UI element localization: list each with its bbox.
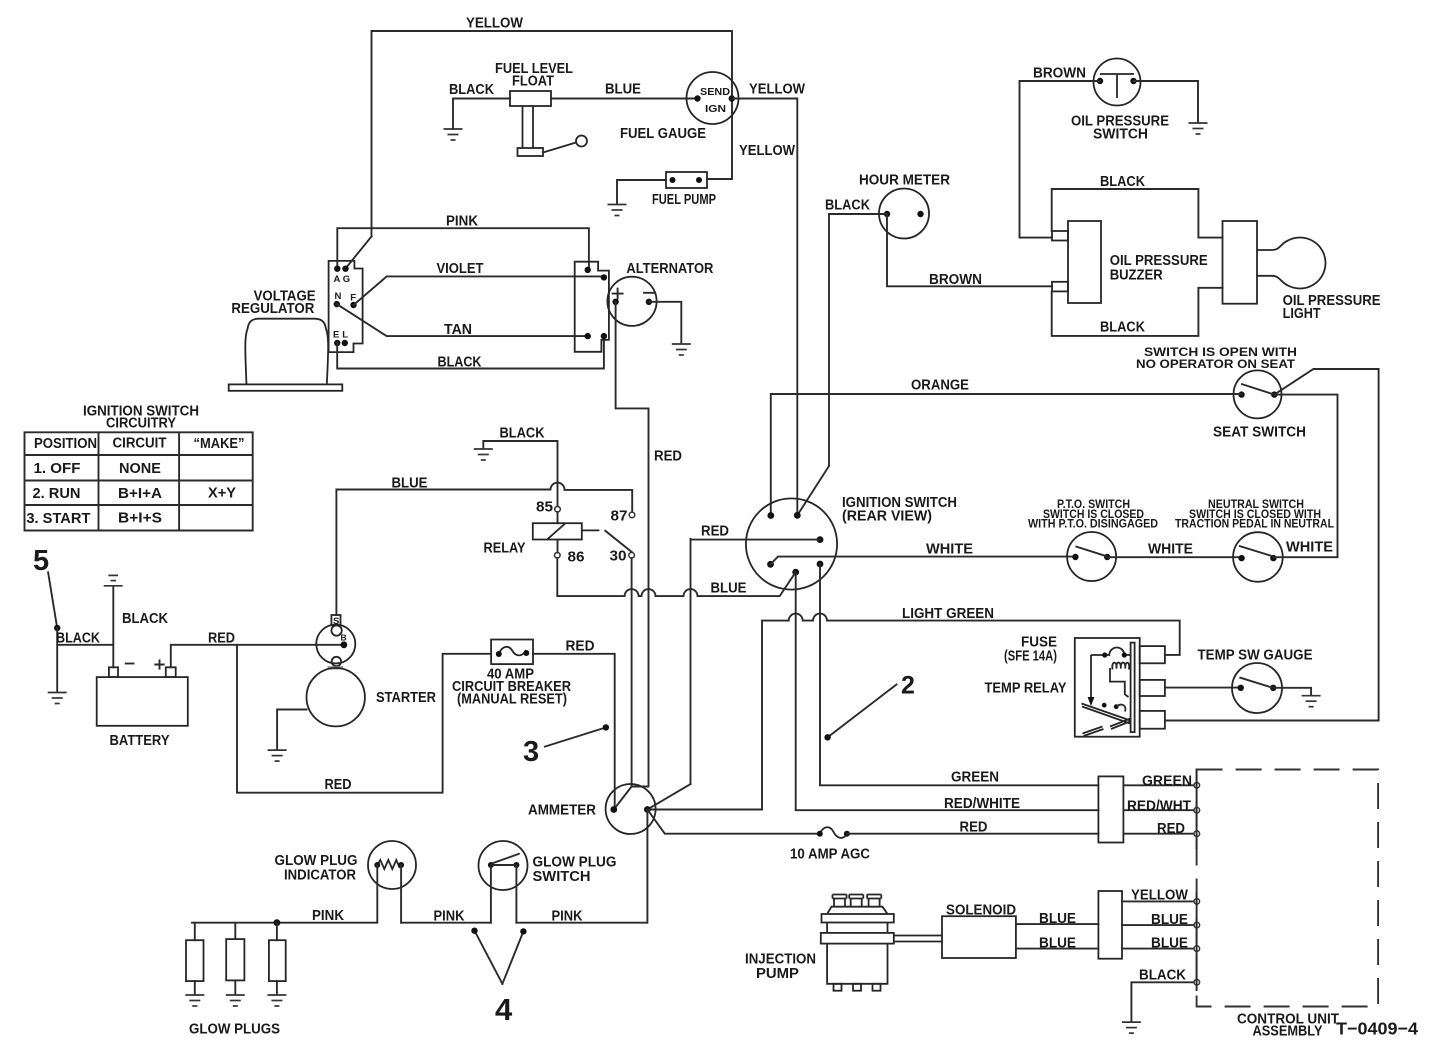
svg-text:PINK: PINK — [552, 908, 583, 924]
battery box — [97, 677, 188, 726]
relay terminal 86 circle — [555, 553, 561, 559]
wire blue 86 to ignition bottom-center — [557, 558, 795, 596]
wire blue right lower — [1122, 948, 1194, 950]
alternator circle — [607, 277, 656, 326]
wire blue float to gauge — [551, 98, 698, 100]
svg-text:LIGHT: LIGHT — [1283, 306, 1321, 322]
callout 5 leader line — [48, 572, 57, 628]
voltage regulator can body — [245, 319, 328, 385]
voltage regulator flange — [229, 384, 343, 390]
circuit breaker element — [499, 647, 527, 656]
callout 4 right dot — [520, 928, 526, 934]
svg-text:RED: RED — [960, 820, 988, 836]
temp gauge blade — [1240, 678, 1271, 688]
temp gauge right dot — [1270, 685, 1276, 691]
svg-text:YELLOW: YELLOW — [1131, 887, 1188, 903]
wire seat switch right dot to white line — [1274, 395, 1337, 558]
voltage regulator pin L dot — [342, 340, 348, 346]
float bottom slider — [518, 148, 544, 156]
temp relay bimetal strip upper — [1082, 704, 1131, 724]
glow plug switch contact line — [493, 864, 514, 866]
injection pump bolt 2 — [849, 895, 863, 907]
glow plug 3 body — [269, 940, 286, 981]
svg-text:HOUR METER: HOUR METER — [859, 173, 950, 189]
starter solenoid top small circle — [331, 625, 341, 635]
glow plug 2 lead — [234, 923, 236, 995]
injection pump dome — [827, 907, 887, 914]
wire oil switch to ground — [1134, 81, 1199, 123]
svg-text:RED: RED — [325, 777, 352, 793]
oil pressure switch left dot — [1097, 78, 1103, 84]
temp relay contact bar — [1131, 643, 1135, 733]
injection pump foot 2 — [853, 984, 861, 991]
svg-text:WHITE: WHITE — [1148, 542, 1193, 558]
svg-text:SEAT SWITCH: SEAT SWITCH — [1213, 425, 1306, 441]
svg-text:GLOW PLUGS: GLOW PLUGS — [189, 1022, 280, 1038]
glow plug 2 body — [226, 939, 244, 980]
svg-text:INDICATOR: INDICATOR — [284, 868, 356, 884]
fuse right dot — [844, 831, 850, 837]
svg-text:BLUE: BLUE — [711, 581, 747, 597]
wire red battery to starter B — [171, 645, 344, 668]
svg-text:BROWN: BROWN — [929, 272, 982, 288]
svg-text:(SFE 14A): (SFE 14A) — [1004, 649, 1057, 665]
svg-text:RED/WHT: RED/WHT — [1127, 798, 1191, 814]
alternator connector top pin dot — [585, 267, 591, 273]
oil pressure light bulb — [1257, 238, 1326, 289]
neutral switch circle — [1233, 532, 1283, 582]
wire red fuse to connector — [847, 833, 1099, 835]
ground fuel pump — [608, 205, 627, 216]
temp relay bottom-left strip — [1083, 727, 1104, 737]
wire red ammeter to fuse — [647, 810, 819, 834]
relay coil box — [533, 523, 582, 539]
temp relay small curl — [1116, 705, 1125, 712]
wire yellow gauge to ignition switch — [732, 99, 798, 516]
harness connector lower — [1098, 891, 1122, 959]
ammeter circle — [606, 784, 656, 834]
ground starter — [268, 750, 287, 761]
svg-text:BLACK: BLACK — [1100, 320, 1145, 336]
injection pump upper body — [827, 923, 887, 933]
wire starter motor to ground — [277, 710, 306, 750]
callout 4 left dot — [471, 928, 477, 934]
wire light green ignition area to temp relay — [647, 614, 1179, 810]
glow plug switch lead wires — [491, 865, 517, 923]
callout 2 leader line — [828, 685, 897, 738]
svg-text:N: N — [335, 291, 342, 302]
svg-text:CIRCUIT: CIRCUIT — [113, 436, 167, 452]
svg-text:IGN: IGN — [705, 103, 726, 115]
ground glow plug 3 — [267, 995, 286, 1006]
temp relay box — [1075, 638, 1140, 737]
wire green ignition bottom-right to control unit — [820, 564, 1098, 785]
wire alternator minus to ground — [649, 302, 681, 344]
alternator connector — [575, 262, 609, 352]
hour meter left dot — [884, 211, 890, 217]
svg-text:10 AMP AGC: 10 AMP AGC — [790, 847, 870, 863]
svg-text:X+Y: X+Y — [208, 485, 236, 501]
wire red connector to control unit — [1123, 833, 1193, 835]
svg-text:GREEN: GREEN — [1142, 773, 1192, 789]
svg-text:RED: RED — [701, 524, 729, 540]
voltage regulator connector — [329, 261, 363, 352]
svg-text:(MANUAL RESET): (MANUAL RESET) — [457, 692, 567, 708]
temp relay arrowhead — [1088, 697, 1095, 706]
wire white ignition to pto switch — [771, 557, 1076, 565]
oil pressure switch T symbol — [1100, 74, 1134, 98]
wire black buzzer top loop — [1052, 189, 1223, 238]
svg-text:BLUE: BLUE — [1151, 912, 1188, 928]
injection pump band 1 — [822, 914, 894, 923]
neutral switch blade — [1240, 546, 1271, 556]
svg-text:3. START: 3. START — [26, 511, 90, 527]
seat switch right dot — [1271, 391, 1277, 397]
relay armature link dash — [582, 529, 600, 531]
svg-text:2. RUN: 2. RUN — [33, 486, 81, 502]
svg-text:5: 5 — [33, 545, 49, 577]
svg-text:“MAKE”: “MAKE” — [194, 436, 245, 452]
ignition pin top-left dot — [767, 512, 774, 519]
svg-text:WHITE: WHITE — [926, 542, 973, 558]
svg-text:TRACTION PEDAL IN NEUTRAL: TRACTION PEDAL IN NEUTRAL — [1175, 517, 1334, 531]
seat switch circle — [1234, 370, 1282, 418]
callout 3 leader line — [545, 727, 606, 746]
svg-text:ALTERNATOR: ALTERNATOR — [626, 261, 713, 277]
relay coil diagonal — [547, 524, 565, 540]
temp relay bottom stub — [1140, 711, 1165, 729]
svg-text:B+I+S: B+I+S — [118, 511, 162, 527]
svg-text:B: B — [341, 633, 347, 643]
control unit pin green — [1194, 783, 1200, 789]
svg-text:BATTERY: BATTERY — [110, 733, 170, 749]
svg-text:NO OPERATOR ON SEAT: NO OPERATOR ON SEAT — [1136, 357, 1296, 371]
wire black relay coil ground — [483, 441, 557, 507]
svg-text:ORANGE: ORANGE — [911, 378, 969, 394]
wire green connector to control unit — [1123, 784, 1193, 786]
battery positive post — [166, 667, 176, 677]
glow plug indicator circle — [368, 841, 416, 889]
fuel gauge circle — [687, 72, 739, 124]
wire yellow connector to control unit — [1122, 900, 1194, 902]
alternator plus terminal dot — [612, 299, 618, 305]
svg-text:RED: RED — [566, 639, 595, 655]
control unit pin black — [1194, 980, 1200, 986]
control unit left edge solid segments — [1196, 770, 1198, 991]
temp sw gauge circle — [1232, 663, 1282, 713]
svg-text:YELLOW: YELLOW — [466, 16, 523, 32]
glow plug switch blade — [493, 854, 519, 863]
float arm — [543, 143, 576, 153]
svg-text:PINK: PINK — [446, 214, 478, 230]
buzzer left bottom stub — [1052, 282, 1068, 292]
svg-text:STARTER: STARTER — [376, 690, 436, 706]
svg-text:BLUE: BLUE — [605, 82, 641, 98]
svg-text:BLUE: BLUE — [1039, 936, 1076, 952]
solenoid box — [942, 916, 1016, 958]
wire black hour meter to ignition — [797, 214, 887, 515]
control unit assembly dashed box — [1197, 770, 1379, 1007]
relay terminal 85 circle — [555, 507, 561, 513]
temp relay top stub — [1140, 646, 1165, 663]
voltage regulator pin E dot — [334, 340, 340, 346]
battery negative post — [109, 667, 118, 677]
callout 5 dot — [54, 625, 60, 631]
wire tan N pin to alternator — [337, 304, 588, 336]
svg-text:POSITION: POSITION — [34, 436, 97, 452]
relay terminal 30 circle — [629, 553, 635, 559]
ammeter left dot — [610, 806, 617, 813]
oil pressure light connector — [1223, 221, 1258, 304]
temp relay mid stub — [1140, 680, 1165, 696]
svg-text:FLOAT: FLOAT — [512, 74, 554, 90]
svg-text:WHITE: WHITE — [1286, 540, 1333, 556]
ammeter right dot — [644, 806, 651, 813]
wire blue starter S to relay 87 — [336, 483, 632, 615]
fuel pump box — [666, 172, 707, 188]
svg-text:87: 87 — [611, 509, 628, 525]
svg-text:REGULATOR: REGULATOR — [231, 301, 314, 317]
svg-text:1. OFF: 1. OFF — [34, 461, 81, 477]
svg-text:PINK: PINK — [312, 908, 344, 924]
svg-text:BLUE: BLUE — [1151, 936, 1188, 952]
svg-text:LIGHT GREEN: LIGHT GREEN — [902, 606, 994, 622]
ground glow plug 2 — [226, 995, 245, 1006]
svg-text:BLACK: BLACK — [500, 426, 545, 442]
svg-text:BLACK: BLACK — [438, 355, 482, 371]
ignition pin bottom-center dot — [792, 569, 799, 576]
wire blue right upper — [1122, 924, 1194, 926]
wire temp relay bottom stub to right vertical — [1165, 720, 1379, 722]
wire temp gauge to ground — [1273, 688, 1311, 695]
svg-text:FUEL GAUGE: FUEL GAUGE — [620, 126, 706, 142]
svg-text:BUZZER: BUZZER — [1110, 268, 1163, 284]
temp relay coil — [1112, 663, 1129, 670]
svg-text:86: 86 — [568, 550, 585, 566]
fuel pump dot right — [696, 177, 702, 183]
seat switch blade — [1242, 384, 1274, 395]
control unit pin blue upper — [1194, 922, 1200, 928]
callout 3 dot — [603, 724, 609, 730]
starter motor circle — [307, 668, 365, 726]
svg-text:G: G — [343, 274, 350, 285]
injection pump band 2 — [821, 933, 894, 944]
hour meter circle — [879, 189, 929, 239]
starter collar bar — [328, 666, 344, 669]
ground glow plug 1 — [185, 995, 204, 1006]
wire red-wht connector to control unit — [1123, 809, 1193, 811]
svg-text:3: 3 — [523, 736, 539, 768]
wire temp relay to gauge — [1165, 687, 1241, 689]
temp gauge left dot — [1238, 685, 1244, 691]
circuit breaker box — [491, 640, 533, 665]
wire red-white ignition bottom-center to control unit — [796, 572, 1099, 810]
svg-text:4: 4 — [495, 992, 513, 1027]
hour meter right dot — [917, 211, 923, 217]
svg-text:2: 2 — [901, 672, 915, 700]
wire 85 to relay coil — [557, 512, 559, 523]
callout 4 right leader — [502, 931, 523, 983]
voltage regulator pin A dot — [334, 266, 340, 272]
pto switch blade — [1076, 547, 1107, 557]
svg-text:YELLOW: YELLOW — [749, 82, 805, 98]
fuel gauge IGN terminal dot — [729, 95, 735, 101]
starter solenoid circle — [316, 625, 355, 664]
glow plug 3 lead — [276, 923, 278, 995]
injection pump lower body — [827, 944, 887, 984]
glow plug switch left dot — [488, 862, 494, 868]
ground left battery — [48, 693, 67, 704]
temp relay inner wire with hop — [1091, 648, 1131, 656]
svg-text:T−0409−4: T−0409−4 — [1336, 1019, 1418, 1039]
alternator connector black pin dot — [601, 333, 607, 339]
alternator minus terminal dot — [646, 299, 652, 305]
float stem — [523, 106, 534, 148]
alternator connector violet pin dot — [601, 274, 607, 280]
svg-text:GREEN: GREEN — [951, 770, 999, 786]
wire red breaker to ammeter — [533, 654, 615, 810]
svg-text:BLUE: BLUE — [392, 476, 428, 492]
injection pump bolt 3 — [867, 895, 881, 907]
svg-text:ASSEMBLY: ASSEMBLY — [1253, 1024, 1323, 1040]
wire relay coil to 86 — [557, 540, 559, 553]
pto switch right dot — [1104, 554, 1110, 560]
svg-text:RELAY: RELAY — [484, 541, 526, 557]
pto switch circle — [1067, 532, 1116, 581]
starter B terminal dot — [341, 641, 348, 648]
svg-text:AMMETER: AMMETER — [528, 803, 596, 819]
wire violet F pin to alternator — [354, 276, 604, 305]
inverted ground above battery — [104, 575, 123, 585]
fuel pump dot left — [670, 177, 676, 183]
ground oil pressure switch — [1189, 123, 1208, 134]
svg-text:85: 85 — [536, 500, 553, 516]
svg-text:RED: RED — [1157, 821, 1185, 837]
wire red loop to circuit breaker — [237, 645, 491, 793]
wire black battery negative branch — [57, 587, 113, 693]
ignition switch circle — [746, 498, 837, 589]
wire brown oil switch to buzzer top stub — [1020, 81, 1101, 238]
svg-text:BROWN: BROWN — [1033, 66, 1086, 82]
svg-text:L: L — [342, 330, 348, 341]
wire orange ignition to seat switch — [771, 394, 1242, 516]
temp relay contact dots — [1102, 703, 1107, 708]
wire fuel pump to ground — [617, 180, 666, 204]
ignition pin bottom-right dot — [817, 561, 824, 568]
wire blue solenoid lower — [1016, 948, 1099, 950]
injection pump foot 1 — [834, 984, 842, 991]
wire black E pin to alternator — [337, 340, 604, 369]
svg-text:BLACK: BLACK — [449, 82, 494, 98]
wire red diag to ammeter right dot — [647, 784, 690, 809]
wire seat switch to right vertical — [1274, 369, 1378, 721]
ground alternator — [672, 344, 691, 355]
pto switch left dot — [1072, 554, 1078, 560]
ignition pin top-right dot — [794, 512, 801, 519]
wire blue solenoid upper — [1016, 923, 1099, 925]
wire pink main run — [192, 810, 647, 923]
neutral switch right dot — [1270, 555, 1276, 561]
relay switch blade — [605, 531, 632, 552]
svg-text:(REAR VIEW): (REAR VIEW) — [842, 509, 932, 525]
svg-text:BLUE: BLUE — [1039, 911, 1076, 927]
circuit breaker left dot — [496, 651, 502, 657]
wire yellow top loop — [372, 31, 733, 236]
relay terminal 87 circle — [629, 512, 635, 518]
pink junction dot — [274, 919, 281, 926]
ground temp gauge — [1302, 696, 1321, 707]
svg-text:A: A — [334, 274, 341, 285]
temp relay coil tail — [1110, 668, 1129, 697]
ground fuel float black — [444, 129, 463, 140]
svg-text:NONE: NONE — [119, 461, 161, 477]
ground control unit black — [1122, 1022, 1141, 1033]
svg-text:SEND: SEND — [700, 86, 730, 98]
svg-text:RED: RED — [654, 449, 682, 465]
glow plug switch circle — [479, 841, 528, 890]
voltage regulator pin F dot — [350, 302, 356, 308]
control unit pin red-wht — [1194, 807, 1200, 813]
wire white pto to neutral — [1107, 556, 1241, 558]
fuel gauge SEND terminal dot — [694, 95, 700, 101]
fuel level float sender body — [510, 91, 551, 106]
svg-text:RED/WHITE: RED/WHITE — [944, 796, 1020, 812]
voltage regulator pin N dot — [334, 301, 340, 307]
ignition pin mid-right dot — [817, 536, 824, 543]
svg-text:E: E — [333, 330, 339, 341]
wire black to fuel float — [453, 99, 510, 130]
starter S terminal box — [331, 615, 340, 625]
voltage regulator pin G dot — [342, 266, 348, 272]
svg-text:PUMP: PUMP — [756, 966, 799, 982]
wire black buzzer bottom loop — [1052, 288, 1223, 336]
svg-text:RED: RED — [208, 631, 235, 647]
wire white neutral to corner — [1273, 556, 1337, 558]
starter lower small circle — [332, 657, 341, 666]
wire black control unit to ground — [1131, 982, 1193, 1021]
callout 4 left leader — [475, 931, 503, 984]
oil pressure buzzer left connector — [1068, 221, 1101, 303]
wire 30 down to ammeter — [614, 558, 632, 809]
battery plus sign — [155, 660, 163, 668]
glow plug indicator left dot — [374, 862, 380, 868]
glow plug 1 lead — [194, 923, 196, 995]
glow plug 1 body — [186, 940, 204, 981]
svg-text:CIRCUITRY: CIRCUITRY — [106, 416, 176, 432]
callout 2 dot — [824, 734, 830, 740]
oil pressure switch circle — [1094, 59, 1141, 106]
injection pump to solenoid rod — [894, 936, 942, 942]
oil pressure switch right dot — [1130, 78, 1136, 84]
svg-text:BLACK: BLACK — [122, 611, 168, 627]
alternator plus sign — [613, 289, 623, 299]
svg-text:SWITCH: SWITCH — [533, 869, 591, 885]
wire red alternator plus down to ammeter — [616, 302, 649, 787]
neutral switch left dot — [1238, 555, 1244, 561]
svg-text:TEMP RELAY: TEMP RELAY — [985, 681, 1067, 697]
svg-text:SWITCH: SWITCH — [1093, 127, 1148, 143]
control unit pin yellow — [1194, 899, 1200, 905]
svg-text:YELLOW: YELLOW — [739, 143, 795, 159]
battery minus sign — [126, 663, 134, 665]
svg-text:TEMP SW GAUGE: TEMP SW GAUGE — [1198, 648, 1313, 664]
svg-text:BLACK: BLACK — [1139, 968, 1186, 984]
svg-text:BLACK: BLACK — [825, 198, 870, 214]
glow plug switch right dot — [513, 862, 519, 868]
ignition pin mid-left dot — [767, 561, 774, 568]
injection pump bolt 1 — [833, 895, 847, 907]
wire yellow diagonal to G pin — [346, 236, 372, 268]
